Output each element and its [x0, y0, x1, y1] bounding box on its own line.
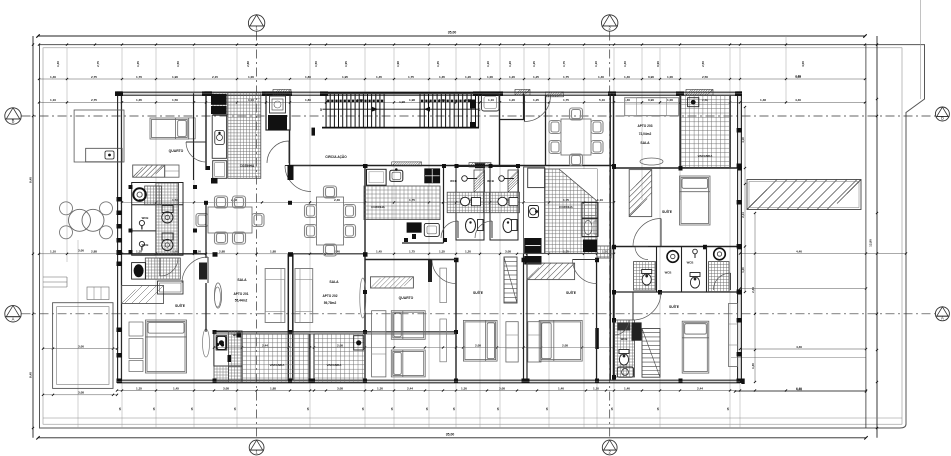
door arc apt202 entry — [285, 166, 311, 192]
dimension row y=79 — [38, 75, 866, 80]
door arc kitchen1 — [267, 141, 289, 163]
svg-text:SUÍTE: SUÍTE — [473, 290, 484, 295]
suite202wc toilet — [619, 350, 629, 366]
svg-text:1,25: 1,25 — [533, 98, 539, 102]
window lines bottom wall — [117, 381, 740, 383]
sidewalk line y=418 — [43, 417, 902, 419]
suite1 wardrobe hatch — [122, 286, 164, 304]
wall left wcb divider 1 — [132, 204, 183, 206]
wall varanda divider x=310-314 — [309, 334, 311, 382]
door arc suite right — [573, 260, 597, 284]
svg-text:1,50: 1,50 — [172, 98, 178, 102]
black chunk kitchen1 corner — [211, 178, 218, 184]
door arc wcb1 — [441, 221, 458, 238]
svg-text:1,95: 1,95 — [344, 61, 348, 67]
ladder wardrobe between suites — [504, 257, 517, 303]
dashed axis horizontal A — [22, 313, 936, 315]
svg-text:VARANDA: VARANDA — [698, 154, 714, 158]
tiles varanda203 — [681, 95, 730, 167]
round table terrace — [69, 209, 91, 231]
right dim ticks — [876, 44, 878, 46]
suite202wc sink — [617, 367, 633, 377]
grid line x=156 — [155, 48, 157, 428]
grid line x=394 — [393, 48, 395, 428]
quarto202 wardrobe column — [372, 311, 386, 377]
svg-text:COZINHA: COZINHA — [559, 205, 573, 209]
tiles varanda1 — [242, 334, 309, 382]
section axis circle bottom 2 — [602, 440, 617, 455]
svg-text:1,10: 1,10 — [486, 61, 490, 67]
mid dimension row y=254 — [38, 250, 615, 255]
wall stair hall bottom y=119.5 — [500, 119, 525, 121]
apt203 kitchen block2 — [583, 240, 597, 253]
svg-text:2,44: 2,44 — [697, 386, 703, 390]
svg-text:1,75: 1,75 — [409, 250, 415, 254]
right yard dim row y=253.5 — [739, 249, 907, 254]
dark chunk suite wall x=597 — [595, 328, 599, 349]
toilet wcb203a — [642, 270, 652, 286]
hatched lintel wcb — [469, 163, 491, 167]
svg-text:QUARTO: QUARTO — [399, 296, 414, 300]
hatched lintel sala203 — [546, 92, 564, 97]
svg-text:4,00: 4,00 — [801, 61, 805, 67]
svg-text:55,44m2: 55,44m2 — [235, 299, 248, 303]
wcb1 left toilet glyph — [139, 220, 144, 225]
grid line x=365 — [364, 48, 366, 428]
stove apt201 (black) — [211, 94, 227, 105]
svg-text:4,40: 4,40 — [796, 387, 802, 391]
bottom dimension row y=390 — [116, 386, 867, 391]
wall pier top x=202 — [202, 91, 212, 96]
grid line x=597 — [596, 200, 598, 428]
quarto202 bed2 — [391, 350, 425, 377]
vertical dim column x=745 — [741, 106, 746, 293]
hatched lintel x=515 — [515, 90, 530, 96]
wall left wcb divider 2 — [132, 230, 156, 232]
svg-text:1,45: 1,45 — [376, 75, 382, 79]
svg-text:1,98: 1,98 — [409, 98, 415, 102]
wall wcb201 right x=242 — [241, 331, 243, 382]
plan right boundary x=866 — [865, 45, 867, 428]
shelf quarto1 — [165, 165, 179, 177]
door arc quarto202 — [432, 260, 456, 284]
svg-text:APTO 202: APTO 202 — [322, 294, 337, 298]
svg-text:5: 5 — [320, 108, 322, 112]
terrace chairs — [60, 202, 73, 215]
svg-text:1,45: 1,45 — [173, 386, 179, 390]
top dimension end marker left — [36, 34, 39, 37]
table apt203 — [640, 158, 663, 165]
mid dimension row y=202 — [121, 198, 615, 203]
axis circle right A — [935, 307, 949, 321]
svg-text:1,50: 1,50 — [172, 250, 178, 254]
apartment divider wall x=290.5 — [287, 254, 289, 380]
tiles suite1 bath — [145, 258, 180, 279]
toilet wcb2 center — [503, 219, 513, 233]
wall wcb cluster center box2 — [490, 167, 518, 241]
suites dim row y=347.5 — [213, 343, 615, 348]
faucet glyph wcb203b — [693, 249, 698, 254]
toilet wcb1 center — [466, 219, 476, 233]
bottom dimension end ticks — [36, 436, 39, 439]
wall left wcb stack box — [132, 183, 183, 256]
svg-text:35,00: 35,00 — [448, 30, 457, 34]
svg-text:2,88: 2,88 — [219, 250, 225, 254]
svg-text:1,35: 1,35 — [436, 61, 440, 67]
stair walk line — [323, 108, 479, 110]
svg-text:0,90: 0,90 — [656, 61, 660, 67]
svg-text:2,08: 2,08 — [337, 343, 343, 347]
svg-text:3,00: 3,00 — [78, 249, 84, 253]
black door jamb stair hall — [470, 100, 476, 109]
window lines top wall — [123, 93, 742, 95]
svg-text:QUARTO: QUARTO — [169, 149, 184, 153]
section axis circle top 2 — [602, 15, 618, 31]
suite202wc dark xpanel — [632, 322, 642, 340]
svg-text:CIRCULAÇÃO: CIRCULAÇÃO — [325, 154, 347, 159]
svg-text:SALA: SALA — [329, 280, 339, 284]
grid line x=614 — [613, 48, 615, 428]
tiles kitchen apt202 — [364, 186, 440, 220]
wall suite203 bottom area x=614 lower — [613, 292, 615, 380]
appliance apt203 oven — [582, 219, 598, 237]
svg-text:2,50: 2,50 — [701, 61, 705, 67]
grid line x=78 — [77, 240, 79, 428]
svg-text:59,78m2: 59,78m2 — [324, 301, 337, 305]
tiles varanda2 — [314, 334, 365, 382]
sink wcb1 center — [460, 197, 469, 205]
hatched wall strip wcb2 — [508, 170, 519, 192]
wall x=206 lower segment b — [205, 283, 207, 332]
svg-text:VARANDA: VARANDA — [327, 363, 343, 367]
dashed axis vertical 1 — [256, 32, 258, 441]
svg-text:1,75: 1,75 — [563, 75, 569, 79]
suite right bed — [539, 320, 582, 361]
svg-text:2,08: 2,08 — [562, 343, 568, 347]
dashed axis horizontal B — [22, 115, 936, 117]
sink wcb2 center — [498, 197, 507, 205]
svg-text:2,44: 2,44 — [407, 386, 413, 390]
left yard dim row y=393 — [42, 391, 118, 396]
wall kitchen2 bottom y=243 — [402, 242, 444, 244]
dark block kitchen202 lower — [407, 222, 422, 232]
wall wcb203 divider c — [706, 247, 708, 293]
svg-text:1,40: 1,40 — [50, 75, 56, 79]
right yard vertical dim x=755 — [751, 212, 756, 383]
quarto202 bed1 — [391, 311, 425, 340]
svg-text:1,35: 1,35 — [136, 386, 142, 390]
svg-text:1,10: 1,10 — [50, 98, 56, 102]
wall corridor left x=289.5 — [289, 130, 291, 166]
terrace counter — [86, 148, 122, 162]
wall pier top x=608 — [608, 91, 616, 96]
right yard dim row y=350 — [739, 345, 867, 350]
svg-text:1,75: 1,75 — [563, 98, 569, 102]
svg-text:3,08: 3,08 — [505, 250, 511, 254]
svg-text:WCB: WCB — [142, 216, 149, 220]
svg-text:1,98: 1,98 — [399, 100, 405, 104]
grid line x=237 — [236, 48, 238, 428]
svg-text:COZINHA: COZINHA — [240, 164, 255, 168]
svg-text:3,08: 3,08 — [499, 386, 505, 390]
svg-text:1,35: 1,35 — [136, 61, 140, 67]
left wall piers — [117, 197, 123, 202]
suite202wc counter dark — [617, 322, 630, 330]
svg-text:1,75: 1,75 — [408, 75, 414, 79]
black counter apt203 b — [524, 256, 541, 265]
suite203 wardrobe — [629, 170, 652, 217]
svg-text:8,45: 8,45 — [29, 177, 33, 183]
door arc wcb2 — [475, 221, 492, 238]
wall wcb203 divider b — [681, 247, 683, 293]
window lines varanda wall — [214, 332, 456, 334]
wall pier top x=735 — [735, 91, 742, 96]
building top wall outer — [115, 91, 742, 93]
black marker near wall corner — [741, 379, 744, 385]
grid line x=786 — [785, 36, 787, 103]
faucet glyph wcb2 — [499, 176, 505, 182]
wall suite203 top y=168 — [614, 167, 742, 169]
svg-text:2,44: 2,44 — [741, 212, 745, 218]
suite1 bed — [146, 320, 187, 373]
tiles suite202 wc — [615, 320, 635, 377]
wall pier top x=473 — [473, 91, 503, 96]
door arc quarto1 — [186, 142, 206, 162]
bed quarto1 — [150, 118, 189, 139]
svg-text:2,44: 2,44 — [751, 287, 755, 293]
wall x=206 lower segment a — [205, 202, 207, 258]
dark jamb corridor-sala202 — [288, 165, 294, 180]
dining table apt203 — [549, 108, 603, 166]
varanda203 sink box — [688, 98, 699, 107]
svg-text:COZINHA: COZINHA — [371, 205, 385, 209]
svg-text:1,50: 1,50 — [314, 61, 318, 67]
grid line x=310 — [309, 48, 311, 428]
plant suite1 b — [203, 329, 210, 357]
svg-text:1,30: 1,30 — [377, 386, 383, 390]
svg-text:4,40: 4,40 — [795, 74, 801, 78]
wall corner piers (black chunks) — [117, 91, 743, 383]
svg-text:SUÍTE: SUÍTE — [175, 303, 186, 308]
plant sala201 — [214, 283, 221, 308]
left yard dim row y=348 — [42, 344, 118, 349]
oven column inner black — [268, 115, 287, 130]
svg-text:1,10: 1,10 — [597, 198, 603, 202]
svg-text:APTO 203: APTO 203 — [637, 124, 652, 128]
svg-text:2,75: 2,75 — [91, 98, 97, 102]
tiles kitchen apt203 — [545, 169, 597, 253]
svg-text:4,40: 4,40 — [795, 98, 801, 102]
svg-text:1,20: 1,20 — [508, 61, 512, 67]
wall suite divider x=527 — [526, 254, 528, 380]
hatch wardrobe suite right — [527, 263, 575, 280]
grid line x=456 — [455, 48, 457, 428]
wall sala203 left x=545.5 — [545, 95, 547, 166]
svg-text:1,40: 1,40 — [598, 75, 604, 79]
svg-text:SUÍTE: SUÍTE — [669, 304, 680, 309]
right yard line y=288.5 — [739, 287, 867, 289]
grid line x=500 — [499, 48, 501, 428]
dining table apt202 — [305, 186, 356, 256]
wall suite divider x=523.5 — [523, 254, 525, 380]
plant suite1 a — [215, 287, 221, 307]
svg-text:SUÍTE: SUÍTE — [662, 209, 673, 214]
svg-text:1,10: 1,10 — [594, 61, 598, 67]
svg-text:3,00: 3,00 — [78, 344, 84, 348]
wall quarto1 right x=193.5 — [193, 93, 195, 180]
wall stair hall x=523.5 upper — [523, 93, 525, 120]
oven symbol — [270, 96, 286, 113]
suite right nightstand strip — [528, 322, 541, 362]
svg-text:SALA: SALA — [237, 278, 247, 282]
top dimension line — [38, 35, 865, 37]
svg-text:1,35: 1,35 — [439, 75, 445, 79]
appliance kitchen202 lower — [424, 223, 439, 236]
svg-text:WCB: WCB — [233, 333, 240, 337]
tiles wcb left top — [145, 186, 162, 205]
stair band top edge thick — [322, 92, 479, 94]
svg-text:1,20: 1,20 — [509, 75, 515, 79]
suite1 nightstand c — [129, 361, 143, 372]
grid line x=67 — [66, 48, 68, 262]
svg-text:2,40: 2,40 — [334, 198, 340, 202]
svg-text:0: 0 — [479, 108, 481, 112]
door arc suite202wc — [614, 320, 629, 335]
suite1 nightstand a — [129, 322, 143, 336]
section axis circle bottom 1 — [249, 440, 264, 455]
toilet wcb203b — [690, 273, 700, 289]
wall stair hall x=499.5 — [499, 93, 501, 166]
door arc apt201 entry — [182, 257, 208, 283]
wall suite right x=596.5 — [596, 260, 598, 381]
fridge apt201 — [213, 161, 227, 179]
quarto202 wardrobe top hatch — [371, 277, 414, 288]
svg-text:SUÍTE: SUÍTE — [566, 290, 577, 295]
section axis circle top 1 — [248, 15, 264, 31]
wall quarto top y=259.5 — [365, 259, 456, 261]
svg-text:1,75: 1,75 — [562, 61, 566, 67]
suite203b wardrobe — [729, 304, 738, 367]
building bottom wall inner — [117, 382, 740, 384]
headboard quarto1 — [189, 118, 196, 139]
building top wall inner — [115, 94, 742, 96]
sink apt203 — [529, 206, 539, 218]
svg-text:1,10: 1,10 — [50, 250, 56, 254]
axis circle right B — [935, 107, 949, 121]
sink wcb201 — [217, 336, 226, 349]
lot boundary inner line — [43, 48, 902, 424]
suite203b bed — [682, 321, 709, 373]
svg-text:1,40: 1,40 — [624, 386, 630, 390]
wall pier top x=320 — [320, 91, 328, 96]
hatched lintel x=686 — [686, 90, 713, 96]
svg-text:1,88: 1,88 — [270, 250, 276, 254]
stove apt202 (black w/ burners) — [424, 168, 440, 183]
door arc hall apt203 — [525, 96, 551, 122]
svg-text:1,70: 1,70 — [136, 75, 142, 79]
svg-text:1,10: 1,10 — [488, 98, 494, 102]
svg-text:1,00: 1,00 — [667, 98, 673, 102]
lot boundary outer line with beveled corner — [40, 45, 925, 428]
suite centre bed — [463, 320, 497, 361]
svg-text:APTO 201: APTO 201 — [233, 292, 248, 296]
door arc suite1 — [160, 258, 178, 276]
apartment divider wall x=611.5 — [609, 93, 611, 380]
right yard dim row y=391.5 — [734, 387, 867, 392]
svg-text:1,88: 1,88 — [270, 386, 276, 390]
svg-text:1,80: 1,80 — [305, 98, 311, 102]
svg-text:A: A — [12, 316, 15, 321]
suite centre nightstand strip — [506, 322, 518, 362]
axis circle left B — [5, 108, 21, 124]
wall varanda203 left x=680 — [679, 95, 681, 168]
svg-text:1,00: 1,00 — [487, 75, 493, 79]
bottom dimension line — [38, 437, 866, 439]
tiles wcb left shower column — [156, 183, 178, 255]
fridge apt202 — [367, 169, 387, 185]
svg-text:2,75: 2,75 — [91, 75, 97, 79]
grid line x=740 — [739, 48, 741, 428]
wall wcb row bottom y=292 apt203 — [614, 291, 740, 293]
svg-text:WCB: WCB — [621, 337, 628, 341]
toilet bowl shower col 1 — [162, 206, 173, 213]
svg-text:2,50: 2,50 — [702, 75, 708, 79]
svg-text:1,40: 1,40 — [558, 386, 564, 390]
hatched wall strip wcb1 — [474, 170, 485, 192]
svg-text:1,10: 1,10 — [593, 386, 599, 390]
grid line x=730 — [729, 48, 731, 428]
tiles wcb center band — [447, 192, 519, 213]
wall corridor bottom y=165.5 — [290, 165, 615, 167]
washing machine left — [133, 188, 146, 201]
varanda1 sink box — [216, 336, 227, 350]
wcb2 left toilet glyph — [139, 241, 144, 246]
suite202wc ladder shaft — [642, 329, 660, 378]
svg-text:1,80: 1,80 — [305, 75, 311, 79]
dark door jamb apt201 — [199, 263, 207, 280]
grid line x=194 — [193, 48, 195, 428]
grid line x=524 — [523, 48, 525, 200]
grid line x=429 — [428, 48, 430, 428]
svg-text:2,44: 2,44 — [262, 343, 268, 347]
svg-text:1,25: 1,25 — [533, 75, 539, 79]
counter apt203 left — [524, 167, 545, 253]
tiny rotated labels under building — [118, 407, 730, 410]
terrace balcony outline — [74, 110, 124, 162]
sofa apt203 — [625, 98, 679, 116]
appliance apt203 upper — [582, 203, 598, 219]
svg-text:B: B — [12, 119, 15, 124]
svg-text:72,04m2: 72,04m2 — [639, 132, 652, 136]
svg-text:2,15: 2,15 — [212, 75, 218, 79]
building left wall — [117, 92, 119, 383]
hatched lintel kitchen202 — [392, 162, 422, 166]
suite1 dresser — [158, 281, 184, 294]
toilet bowl shower col 2 — [162, 233, 173, 240]
fridge stair hall — [482, 94, 500, 111]
svg-text:B: B — [941, 116, 944, 121]
sink wcb203b — [714, 248, 726, 260]
varanda2 sink box — [354, 336, 364, 350]
stair treads — [326, 93, 475, 127]
left vertical dimension line — [32, 36, 34, 438]
svg-text:1,98: 1,98 — [396, 61, 400, 67]
sofa apt202 — [295, 269, 313, 323]
door arc suite203b — [633, 292, 661, 320]
wall suite1 top y=254 left — [122, 253, 206, 255]
entry steps — [43, 276, 67, 278]
svg-text:1,30: 1,30 — [461, 386, 467, 390]
